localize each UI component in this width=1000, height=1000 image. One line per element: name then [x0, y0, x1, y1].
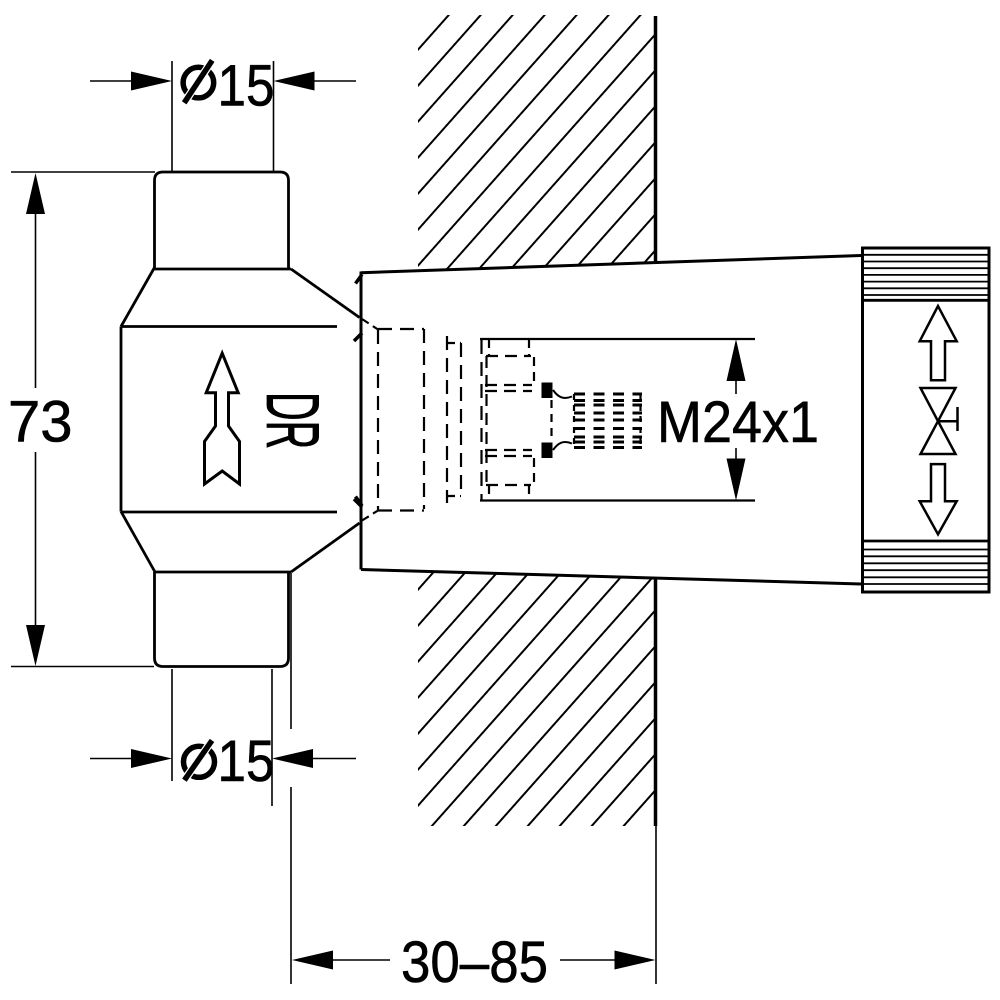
svg-text:30–85: 30–85: [401, 930, 548, 995]
svg-text:DR: DR: [251, 392, 336, 449]
svg-text:73: 73: [8, 390, 73, 455]
svg-text:15: 15: [218, 54, 275, 119]
svg-text:M24x1: M24x1: [657, 390, 819, 455]
svg-text:15: 15: [218, 729, 275, 794]
